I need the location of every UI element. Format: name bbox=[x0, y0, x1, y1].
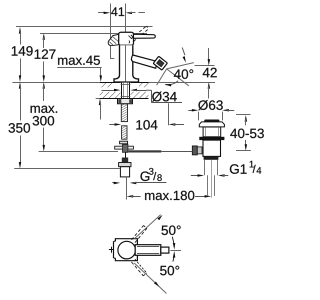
waste side connector nut bbox=[192, 146, 197, 155]
aerator bbox=[153, 56, 167, 70]
top view axis extension bbox=[171, 250, 182, 252]
dimension max.45 bbox=[58, 56, 100, 65]
angle 50deg upper arc bbox=[172, 237, 174, 247]
dimension 104 bbox=[109, 124, 117, 126]
dimension 41 bbox=[98, 12, 106, 14]
wire supply extension down bbox=[126, 177, 128, 200]
dimension 149 bbox=[19, 27, 21, 34]
dimension diameter 63 bbox=[188, 110, 194, 112]
wire second reference line (lever level, y=33.2) bbox=[40, 33, 147, 35]
waste bottom dark band bbox=[204, 156, 219, 159]
waste upper body bbox=[203, 127, 221, 137]
faucet handle lever (down position, left) bbox=[108, 34, 119, 46]
wire deck-top extension line left bbox=[12, 82, 99, 84]
wire 50deg upper swivel centerline bbox=[135, 215, 161, 239]
label 50deg lower bbox=[160, 266, 179, 276]
label O34 bbox=[152, 92, 177, 102]
wire top reference line (spout max height level, y=27) bbox=[16, 26, 153, 28]
angle 40deg legs and arc bbox=[167, 69, 189, 86]
rod collar bbox=[120, 141, 128, 144]
label 40deg bbox=[174, 69, 193, 79]
dimension G3/8 supply thread bbox=[112, 182, 116, 184]
supply nut G3/8 bbox=[119, 163, 131, 167]
faucet hinge detail bbox=[129, 35, 134, 39]
dimension 350 bbox=[19, 82, 21, 89]
wire supply-level extension line (350 bottom) bbox=[14, 168, 120, 170]
pop-up waste flange O63 bbox=[199, 122, 224, 127]
top view lever swivel dashed up bbox=[132, 226, 144, 240]
label G3/8 bbox=[140, 171, 149, 181]
faucet lever raised (dashed) bbox=[132, 26, 147, 39]
angle 50deg upper line arrowhead bbox=[157, 215, 162, 220]
mounting nut below deck bbox=[118, 99, 133, 104]
wire rod-level extension line (max.300 bottom) bbox=[39, 151, 118, 153]
pop-up horizontal rod bbox=[128, 150, 161, 152]
faucet spout bbox=[131, 55, 157, 68]
label G1 1/4 bbox=[230, 164, 247, 174]
wire body centerline (41 right extension) bbox=[125, 45, 127, 81]
pop-up waste plug cap bbox=[204, 120, 219, 123]
wire 50deg lower swivel centerline bbox=[134, 263, 166, 294]
waste lower body bbox=[203, 140, 221, 156]
dimension 40-53 bbox=[236, 114, 251, 116]
dimension G1 1/4 waste thread bbox=[191, 175, 200, 177]
top view escutcheon square bbox=[114, 239, 137, 261]
top view spout stub bbox=[109, 249, 114, 251]
waste black band (horseshoe washer) bbox=[199, 137, 224, 140]
faucet shank through deck bbox=[121, 83, 131, 99]
dimension max.300 bbox=[43, 82, 46, 89]
dimension 127 bbox=[43, 33, 46, 40]
faucet cartridge housing bbox=[119, 32, 134, 45]
label 50deg upper bbox=[162, 225, 181, 235]
deck hatched section bbox=[100, 83, 113, 88]
wire deck-top extension line right (to 42 dim) bbox=[149, 82, 216, 84]
dimension 42 bbox=[195, 65, 215, 67]
faucet lever horizontal bbox=[134, 34, 156, 38]
top view lever swivel dashed down bbox=[132, 262, 144, 276]
top view lever bbox=[135, 245, 161, 256]
waste tailpipe bbox=[204, 160, 206, 175]
top view body circle bbox=[118, 241, 136, 259]
pop-up rod cross fitting bbox=[115, 146, 134, 149]
supply pipe end bbox=[120, 167, 129, 177]
threaded rod lower part bbox=[122, 126, 127, 139]
angle 50deg lower arc bbox=[173, 254, 174, 262]
supply clamp bbox=[122, 158, 128, 163]
threaded stud bbox=[121, 104, 127, 122]
dimension max.180 bbox=[127, 195, 134, 198]
dimension diameter 34 bbox=[102, 90, 117, 92]
faucet body bbox=[114, 45, 139, 82]
angle 50deg lower line arrowhead bbox=[154, 282, 159, 287]
